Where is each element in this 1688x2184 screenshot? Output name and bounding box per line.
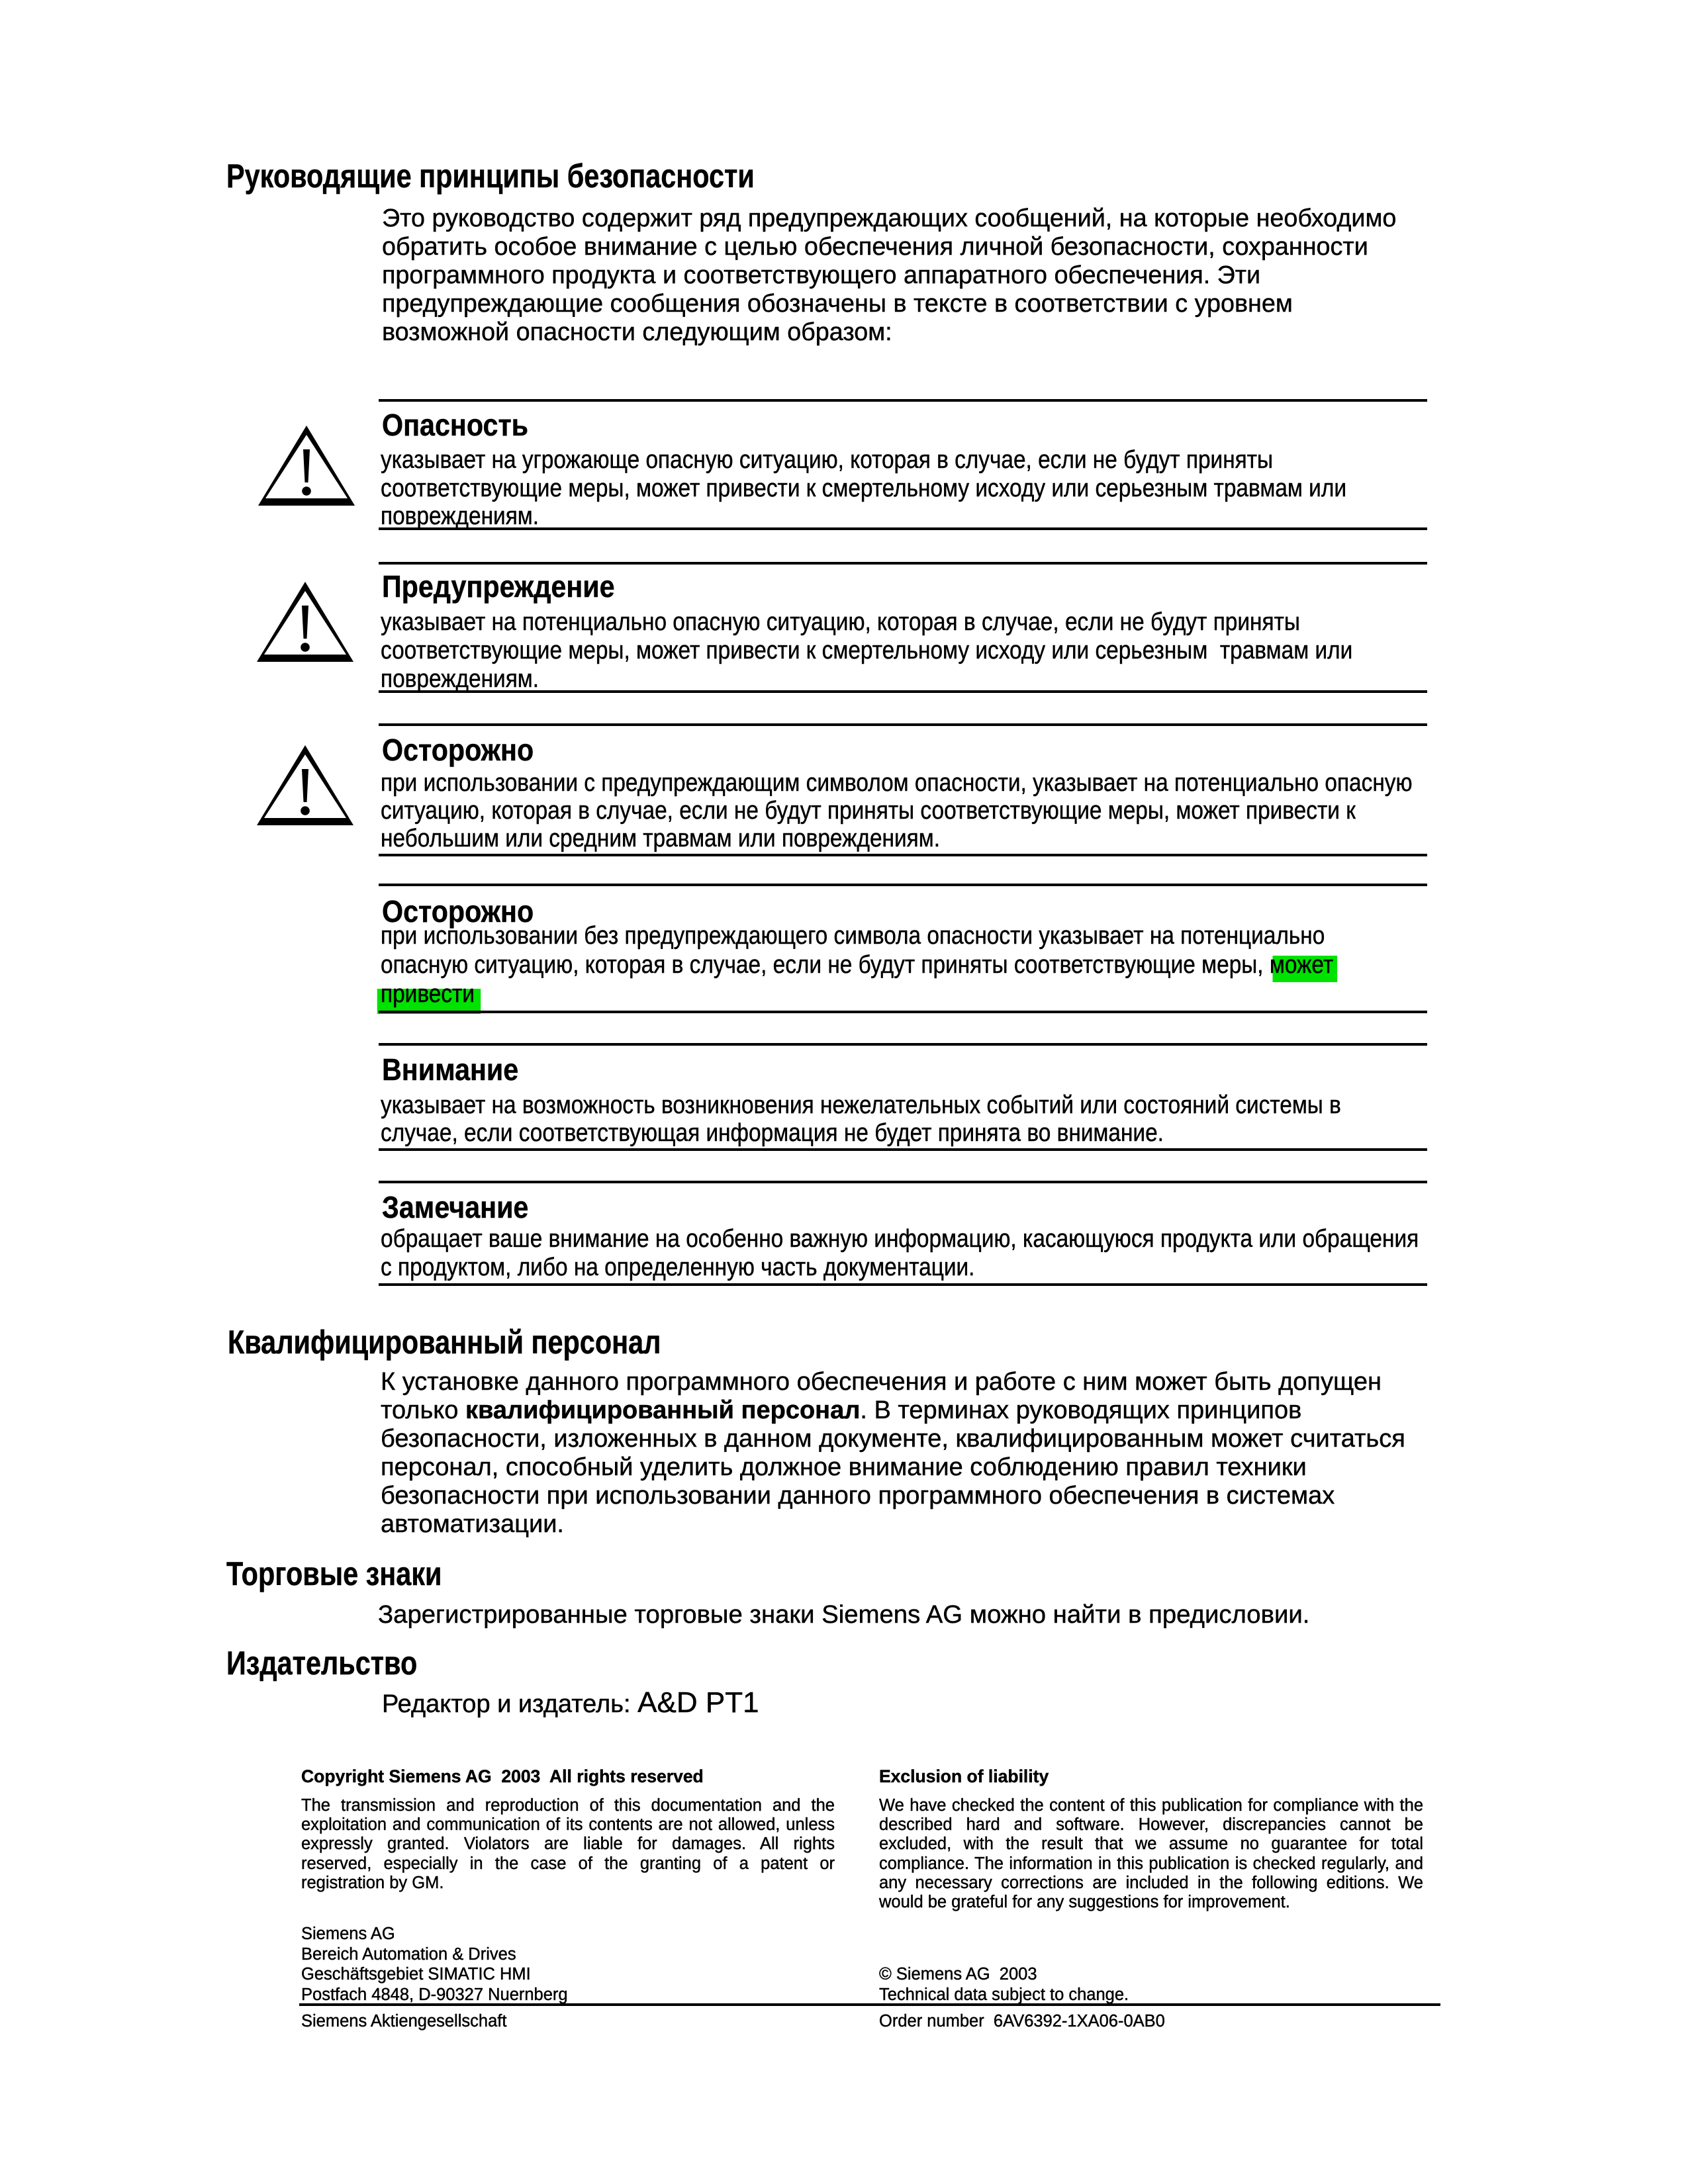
block 5: Внимание — [379, 1043, 1427, 1046]
block 4: Осторожно (без символа) — [379, 884, 1427, 886]
footer left column — [301, 1767, 704, 1786]
section: Квалифицированный персонал — [228, 1326, 661, 1359]
main heading — [226, 159, 755, 193]
block 6: Замечание — [379, 1181, 1427, 1183]
block 2: Предупреждение — [379, 562, 1427, 565]
footer bottom rule — [299, 2003, 1440, 2006]
block 1: Опасность — [379, 399, 1427, 402]
intro paragraph — [382, 205, 1396, 347]
warning triangle 1 — [258, 426, 355, 507]
footer right column — [879, 1767, 1049, 1786]
warning triangle 3 — [257, 745, 353, 827]
block 3: Осторожно — [379, 723, 1427, 726]
warning triangle 2 — [257, 582, 353, 663]
section: Издательство — [226, 1647, 417, 1680]
section: Торговые знаки — [226, 1557, 442, 1591]
